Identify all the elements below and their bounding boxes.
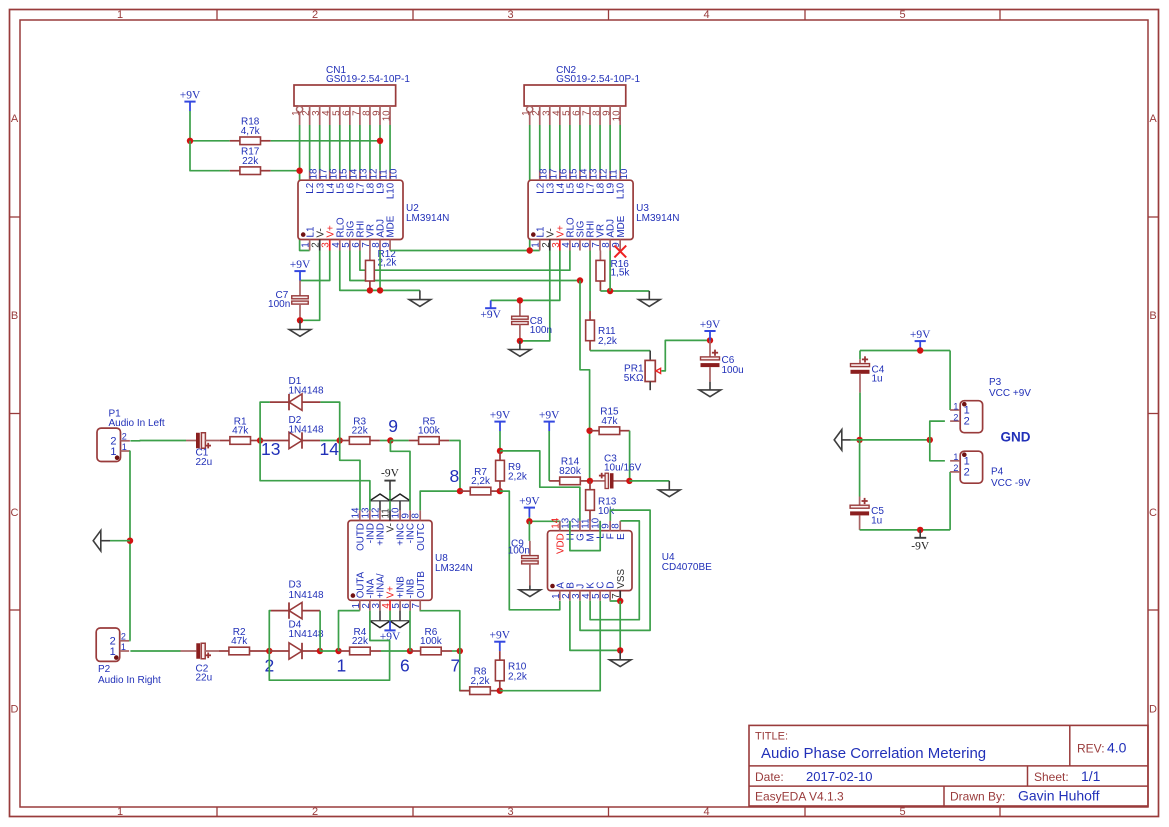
capacitor C1 <box>186 433 220 449</box>
wire <box>569 125 571 171</box>
labels C2 <box>196 664 213 684</box>
junction <box>577 277 583 283</box>
svg-text:7: 7 <box>411 603 422 608</box>
svg-text:P4: P4 <box>991 467 1004 478</box>
junction <box>377 138 383 144</box>
diode D1 <box>270 376 324 411</box>
connector P2 <box>96 628 161 686</box>
junction <box>127 538 133 544</box>
svg-text:1u: 1u <box>872 374 883 385</box>
svg-text:+9V: +9V <box>910 329 931 341</box>
svg-text:1N4148: 1N4148 <box>289 424 324 435</box>
svg-text:GS019-2.54-10P-1: GS019-2.54-10P-1 <box>326 74 410 85</box>
wire U2.4 RLO to ground rail <box>340 251 420 291</box>
junction <box>626 478 632 484</box>
svg-text:P3: P3 <box>989 377 1002 388</box>
wire C5 top from mid node <box>859 440 861 497</box>
wire PR1 wiper to +9V/C6 <box>661 340 710 371</box>
wire R8/R10 node to U4.5 <box>500 601 600 691</box>
wire <box>589 125 591 171</box>
no-connect marker U3.9 <box>614 246 626 258</box>
svg-text:1/1: 1/1 <box>1081 768 1101 784</box>
junction <box>917 347 923 353</box>
junction <box>317 648 323 654</box>
wire <box>190 140 230 142</box>
IC U3 LM3914N <box>528 171 679 251</box>
junction <box>517 338 523 344</box>
svg-text:5KΩ: 5KΩ <box>624 373 644 384</box>
svg-text:2,2k: 2,2k <box>508 672 528 683</box>
connector CN1 GS019-2.54-10P-1 <box>291 65 410 125</box>
junction <box>856 437 862 443</box>
wire mid node to P3.2 <box>930 421 945 440</box>
svg-text:+9V: +9V <box>519 495 540 507</box>
wire +9V node down to C9 <box>528 521 530 541</box>
capacitor C4 <box>851 356 885 392</box>
wire <box>609 251 611 292</box>
svg-text:VSS: VSS <box>616 569 627 589</box>
power flag +9V <box>490 630 511 652</box>
svg-text:1: 1 <box>117 9 123 21</box>
svg-text:100n: 100n <box>268 299 290 310</box>
wire <box>359 125 361 171</box>
resistor R12 <box>366 249 398 291</box>
wire C3 right to ground <box>629 480 669 482</box>
svg-text:8: 8 <box>611 523 622 529</box>
junction <box>607 288 613 294</box>
diode D2 <box>261 415 324 449</box>
junction <box>497 448 503 454</box>
power flag +9V <box>519 495 540 517</box>
power flag -9V <box>381 467 400 490</box>
svg-text:Audio In Right: Audio In Right <box>98 675 161 686</box>
svg-text:A: A <box>1149 113 1157 125</box>
wire <box>589 251 591 312</box>
svg-text:OUTC: OUTC <box>416 523 427 551</box>
svg-text:2: 2 <box>953 412 958 422</box>
svg-text:2: 2 <box>121 632 126 642</box>
wire U4.13 to U4.10 over box <box>570 521 600 551</box>
wire R3 to node 9 <box>380 440 391 442</box>
svg-text:Gavin Huhoff: Gavin Huhoff <box>1018 788 1100 804</box>
capacitor C8 <box>512 300 552 341</box>
wire R9 top to U4.12 <box>500 451 580 521</box>
junction <box>387 437 393 443</box>
resistor R3 <box>340 416 380 444</box>
wire C4 bottom to mid node <box>859 393 861 440</box>
svg-text:10: 10 <box>389 168 400 179</box>
svg-text:1: 1 <box>121 642 126 652</box>
svg-text:2,2k: 2,2k <box>508 472 528 483</box>
svg-text:+9V: +9V <box>490 630 511 642</box>
svg-text:10: 10 <box>619 168 630 179</box>
resistor R13 <box>586 481 617 521</box>
svg-text:10: 10 <box>612 110 623 121</box>
resistor R16 <box>596 259 630 291</box>
ground <box>93 530 110 551</box>
resistor R9 <box>496 451 528 491</box>
svg-text:100u: 100u <box>722 365 744 376</box>
wire mid node to P4.1 <box>930 440 945 461</box>
junction <box>527 247 533 253</box>
wire U8.4 V+ to +9V flag <box>389 611 391 622</box>
plus C1 <box>205 443 211 449</box>
capacitor C6 <box>701 340 744 381</box>
wire U8.2 -INA loop to node 2 <box>269 611 389 681</box>
wire node2 up to D3 <box>269 611 271 651</box>
svg-text:Audio In Left: Audio In Left <box>109 418 165 429</box>
capacitor C5 <box>850 497 884 530</box>
wire R6 right to node 7 <box>452 650 460 652</box>
wire <box>349 125 351 171</box>
junction <box>617 647 623 653</box>
svg-text:10u/16V: 10u/16V <box>604 463 642 474</box>
svg-text:E: E <box>616 533 627 540</box>
svg-text:4,7k: 4,7k <box>241 126 261 137</box>
junction <box>457 648 463 654</box>
svg-text:2: 2 <box>122 432 127 442</box>
connector CN2 GS019-2.54-10P-1 <box>521 65 640 125</box>
junction <box>586 428 592 434</box>
svg-text:10: 10 <box>382 110 393 121</box>
junction <box>927 437 933 443</box>
wire <box>319 125 321 171</box>
ground <box>834 430 850 451</box>
wire D3 anode down to D4 cathode <box>319 611 321 651</box>
svg-text:2: 2 <box>312 806 318 818</box>
labels C1 <box>196 447 213 467</box>
svg-text:22u: 22u <box>196 457 213 468</box>
svg-text:2: 2 <box>964 416 970 428</box>
wire -9V to tents baseline <box>389 490 391 500</box>
svg-text:2: 2 <box>953 463 958 473</box>
wire <box>609 125 611 171</box>
junction <box>617 598 623 604</box>
wire gnd arrow to node <box>110 540 130 542</box>
wire U4.8 E around right to U4.4 K <box>590 521 639 620</box>
trimmer PR1 <box>624 351 661 391</box>
svg-text:1,5k: 1,5k <box>611 268 631 279</box>
svg-text:2,2k: 2,2k <box>598 336 618 347</box>
svg-text:47k: 47k <box>231 636 248 647</box>
svg-text:10k: 10k <box>598 506 615 517</box>
resistor R6 <box>410 627 452 655</box>
capacitor C9 <box>508 538 538 585</box>
svg-text:9: 9 <box>381 242 392 247</box>
wire U8.7 OUTB to node 7 <box>420 611 460 651</box>
svg-text:VCC -9V: VCC -9V <box>991 478 1031 489</box>
svg-text:Date:: Date: <box>755 770 784 784</box>
wire U4.6 D to VSS node <box>610 600 620 602</box>
svg-text:13: 13 <box>261 439 280 459</box>
svg-text:22u: 22u <box>196 673 213 684</box>
wire +9V to R9 top <box>499 431 501 451</box>
wire <box>389 125 391 171</box>
resistor R11 <box>586 311 618 351</box>
power flag +9V <box>490 409 511 431</box>
svg-text:GND: GND <box>1001 430 1031 445</box>
IC U8 LM324N <box>348 507 473 611</box>
svg-text:100k: 100k <box>420 636 443 647</box>
power flag +9V <box>910 329 931 351</box>
svg-text:8: 8 <box>411 513 422 519</box>
svg-text:14: 14 <box>320 439 340 459</box>
svg-text:4.0: 4.0 <box>1107 740 1127 756</box>
svg-text:2: 2 <box>312 9 318 21</box>
wire <box>329 125 331 171</box>
connector P1 <box>97 409 165 462</box>
svg-text:CD4070BE: CD4070BE <box>662 562 712 573</box>
wire D2 cathode to node 14 <box>320 440 340 442</box>
wire <box>559 125 561 171</box>
capacitor C3 <box>590 453 642 488</box>
title block <box>749 725 1148 806</box>
ground <box>509 341 531 356</box>
ground <box>409 290 431 306</box>
svg-text:MDE: MDE <box>386 215 397 237</box>
wire U3.2 V- to C8 bottom <box>520 251 550 341</box>
svg-text:1u: 1u <box>871 515 882 526</box>
wire -9V stem to U8.11 <box>389 501 391 511</box>
svg-text:+9V: +9V <box>700 319 721 331</box>
svg-text:3: 3 <box>507 806 513 818</box>
wire <box>379 251 381 291</box>
svg-text:8: 8 <box>450 466 460 486</box>
svg-text:2,2k: 2,2k <box>471 476 491 487</box>
svg-text:MDE: MDE <box>616 215 627 237</box>
wire node9 to R5 <box>390 440 408 442</box>
junction <box>497 688 503 694</box>
diode D4 <box>270 619 324 659</box>
wire U8.6 -INB to node 6 <box>409 611 411 651</box>
svg-text:VCC +9V: VCC +9V <box>989 388 1031 399</box>
power bar symbols -9V at U8 pins 12,10 <box>370 494 410 510</box>
plus C2 <box>205 653 211 659</box>
junction <box>407 648 413 654</box>
wire SIG down to R15/R14 node <box>580 281 590 481</box>
wire +9V node to U4.14 <box>529 517 559 531</box>
svg-text:+9V: +9V <box>290 259 311 271</box>
IC U4 CD4070BE <box>548 517 713 600</box>
junction <box>497 488 503 494</box>
svg-text:LM324N: LM324N <box>435 563 473 574</box>
wire +9V down to R14 <box>548 431 550 481</box>
junction <box>517 297 523 303</box>
power flag +9V <box>290 259 311 281</box>
svg-text:1: 1 <box>337 655 347 675</box>
wire U2.3 V+ to +9V <box>300 251 330 281</box>
power flag +9V <box>539 409 560 431</box>
svg-text:LM3914N: LM3914N <box>636 213 679 224</box>
wire U8.14 OUTD to node 14 <box>340 441 360 511</box>
wire mid node right <box>860 439 930 441</box>
wire U2.2 V- to C7 bottom <box>300 251 320 321</box>
svg-text:Audio Phase Correlation Meteri: Audio Phase Correlation Metering <box>761 745 986 762</box>
wire node to R4 <box>320 650 339 652</box>
wire U3.7 stub to R16 <box>599 251 601 261</box>
net labels 18-10 <box>538 168 629 179</box>
ground <box>699 382 721 397</box>
wire <box>579 125 581 171</box>
wire <box>549 125 551 171</box>
svg-text:REV:: REV: <box>1077 742 1105 756</box>
resistor R1 <box>220 416 260 444</box>
wire <box>619 125 621 171</box>
svg-text:22k: 22k <box>242 156 259 167</box>
svg-text:1N4148: 1N4148 <box>289 385 324 396</box>
wire -9V rail <box>860 529 951 531</box>
power bar symbols +9V at U8 pins 3,5 <box>370 611 410 628</box>
connector P4 <box>950 451 1031 489</box>
svg-text:2017-02-10: 2017-02-10 <box>806 769 873 784</box>
junction <box>187 138 193 144</box>
junction <box>297 317 303 323</box>
connector P3 <box>950 377 1031 433</box>
svg-text:1N4148: 1N4148 <box>289 590 324 601</box>
wire <box>189 111 191 141</box>
capacitor C7 <box>268 281 308 321</box>
svg-text:C: C <box>1149 507 1157 519</box>
diode D3 <box>271 580 324 619</box>
wire P2.1 to C2 <box>130 650 180 652</box>
junction <box>526 518 532 524</box>
power flag +9V <box>180 89 201 111</box>
svg-text:Sheet:: Sheet: <box>1034 770 1069 784</box>
svg-text:22k: 22k <box>352 426 369 437</box>
svg-text:C: C <box>11 507 19 519</box>
power flag +9V <box>380 621 401 643</box>
wire U8.9 -INC to node 9 <box>390 441 410 511</box>
capacitor C2 <box>181 643 220 659</box>
wire <box>379 125 381 171</box>
wire <box>539 125 541 171</box>
svg-text:P2: P2 <box>98 664 111 675</box>
svg-text:B: B <box>11 310 18 322</box>
resistor R17 <box>230 147 271 175</box>
wire R15 right down to C3 node <box>629 431 631 481</box>
resistor R14 <box>549 457 590 485</box>
resistor R7 <box>460 467 500 495</box>
wire R4 to node 6 <box>381 650 410 652</box>
junction <box>457 488 463 494</box>
svg-text:GS019-2.54-10P-1: GS019-2.54-10P-1 <box>556 74 640 85</box>
resistor R10 <box>495 651 528 691</box>
wire R5 right down to node 8 <box>449 441 460 492</box>
junction <box>266 648 272 654</box>
svg-text:+9V: +9V <box>539 409 560 421</box>
junction <box>337 437 343 443</box>
svg-text:-9V: -9V <box>911 541 930 553</box>
junction <box>707 337 713 343</box>
svg-text:1: 1 <box>117 806 123 818</box>
wire U2.7 stub to R12 <box>369 251 371 261</box>
junction <box>335 648 341 654</box>
wire net 18 CN2.1-U3.1 <box>530 125 540 251</box>
wire <box>190 141 230 171</box>
wire U2.9 MDE to net18 of U3 <box>390 250 530 252</box>
svg-text:22k: 22k <box>352 636 369 647</box>
svg-text:+9V: +9V <box>480 309 501 321</box>
svg-text:3: 3 <box>507 9 513 21</box>
wire D1 anode down to node 14 <box>320 402 339 440</box>
resistor R5 <box>409 416 450 444</box>
svg-text:B: B <box>1149 310 1156 322</box>
power flag -9V <box>911 530 930 553</box>
junction <box>296 168 302 174</box>
wire +9V rail <box>860 350 950 352</box>
svg-text:EasyEDA V4.1.3: EasyEDA V4.1.3 <box>755 790 844 804</box>
svg-text:5: 5 <box>899 806 905 818</box>
svg-text:-9V: -9V <box>381 467 400 479</box>
svg-text:5: 5 <box>899 9 905 21</box>
svg-text:D: D <box>11 704 19 716</box>
wire U4.9 F around right to U4.3 J <box>580 510 650 630</box>
wire U2.5 SIG to U3.5 <box>350 251 580 281</box>
svg-text:+9V: +9V <box>180 89 201 101</box>
svg-text:2,2k: 2,2k <box>471 676 491 687</box>
wire <box>339 125 341 171</box>
wire R16 bottom to ground <box>600 290 649 292</box>
wire U4.2 B to VSS node <box>570 601 620 651</box>
wire U8.8 OUTC to node 8 <box>420 491 460 510</box>
power flag +9V <box>480 300 501 321</box>
IC U2 LM3914N <box>298 171 449 251</box>
junction <box>917 527 923 533</box>
svg-text:Drawn By:: Drawn By: <box>950 790 1005 804</box>
wire P1.1 down to GND node and P2.2 <box>129 451 131 641</box>
wire <box>369 125 371 171</box>
wire node7 down to R8 <box>460 651 470 691</box>
ground <box>289 320 311 336</box>
svg-text:100k: 100k <box>418 426 441 437</box>
wire P4.2 to -9V rail <box>949 472 951 530</box>
svg-text:100n: 100n <box>508 545 530 556</box>
wire U8.1 OUTA to node 1 <box>339 611 360 651</box>
svg-text:820k: 820k <box>559 466 582 477</box>
svg-text:OUTB: OUTB <box>416 571 427 599</box>
resistor R8 <box>460 667 500 695</box>
wire P3.1 to +9V rail <box>949 351 951 411</box>
wire U8.13 -IND to node 13 <box>260 441 370 511</box>
svg-text:47k: 47k <box>601 416 618 427</box>
svg-text:47k: 47k <box>232 426 249 437</box>
svg-text:1N4148: 1N4148 <box>289 629 324 640</box>
wire net 18 CN1.1-U2.1 <box>300 125 310 251</box>
resistor R2 <box>219 627 269 655</box>
wire <box>599 125 601 171</box>
resistor R15 <box>590 407 630 435</box>
svg-text:LM3914N: LM3914N <box>406 213 449 224</box>
wire rail down to C4 <box>859 351 861 360</box>
wire node13 up to D1 <box>260 402 270 440</box>
net labels 18-10 <box>308 168 399 179</box>
wire P1.2 to C1 <box>130 440 186 442</box>
svg-text:6: 6 <box>400 655 410 675</box>
svg-text:L10: L10 <box>386 182 397 199</box>
wire R11 bottom to PR1 <box>590 350 650 352</box>
ground <box>609 650 631 666</box>
svg-text:2: 2 <box>964 467 970 479</box>
svg-text:TITLE:: TITLE: <box>755 731 788 743</box>
ground <box>659 481 681 497</box>
svg-text:D: D <box>1149 704 1157 716</box>
wire <box>271 170 300 172</box>
ground <box>519 586 541 597</box>
wire <box>271 140 380 142</box>
svg-text:7: 7 <box>451 655 461 675</box>
svg-text:1: 1 <box>953 452 958 462</box>
wire gnd arrow to mid node <box>851 439 860 441</box>
